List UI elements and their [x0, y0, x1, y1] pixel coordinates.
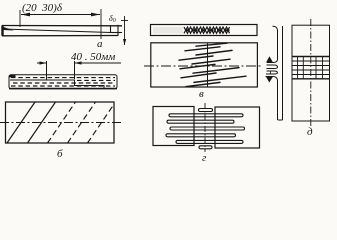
svg-text:(20 30)δ: (20 30)δ	[22, 2, 63, 14]
svg-text:δ0: δ0	[109, 14, 116, 24]
svg-text:б: б	[57, 148, 63, 160]
svg-text:в: в	[199, 88, 204, 100]
svg-text:40 . 50мм: 40 . 50мм	[71, 51, 115, 63]
svg-text:д: д	[307, 126, 313, 138]
svg-text:г: г	[202, 152, 207, 162]
svg-text:а: а	[97, 38, 103, 50]
